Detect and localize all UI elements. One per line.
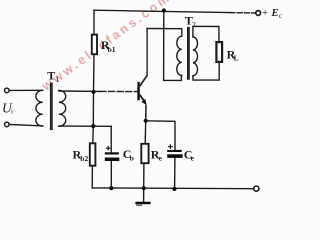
transformer T1 core (51, 83, 52, 129)
wire Rb2 bottom (91, 166, 93, 188)
resistor Rb2 (90, 143, 96, 165)
label +Ec (262, 8, 282, 20)
svg-text:L: L (234, 53, 239, 62)
transformer T1 secondary winding (59, 90, 66, 126)
wire emitter to Re (144, 121, 147, 144)
wire Ce bottom (174, 158, 176, 189)
svg-text:T: T (47, 68, 55, 82)
node junction dot base (91, 90, 95, 94)
input terminal bottom (5, 122, 10, 127)
node junction dot Ce ground (172, 187, 176, 191)
svg-text:E: E (271, 8, 279, 19)
wire input top (9, 89, 43, 91)
svg-text:c: c (279, 12, 282, 20)
wire Rb1 bottom to base node (93, 54, 96, 92)
node junction dot Cb ground (109, 186, 113, 190)
transistor Q1 emitter lead with arrow (140, 95, 147, 121)
wire collector to T2 primary top (147, 29, 182, 37)
svg-text:1: 1 (55, 75, 59, 84)
label Re (151, 147, 163, 162)
svg-text:+: + (262, 8, 268, 19)
transformer T2 core (188, 28, 189, 80)
resistor Rb1 (92, 35, 97, 55)
capacitor Cb polarity plus (106, 146, 111, 151)
ground terminal bottom right (254, 186, 259, 191)
wire emitter to Ce (146, 121, 175, 150)
transformer T1 primary winding (36, 90, 43, 126)
wire T1 secondary top to base (59, 90, 138, 93)
label T2 (185, 14, 196, 29)
watermark www.elecfans.com (39, 0, 174, 94)
transistor Q1 base bar (137, 82, 139, 100)
svg-text:i: i (11, 108, 13, 116)
label Ui (2, 101, 13, 116)
label RL (227, 47, 239, 62)
wire collector vertical (146, 29, 148, 76)
ground stem (143, 188, 145, 202)
wire Re bottom (143, 163, 145, 188)
label T1 (47, 68, 59, 83)
wire base node to node B (92, 92, 94, 126)
resistor Re (141, 144, 148, 163)
ground (135, 202, 150, 206)
label Rb2 (73, 147, 89, 163)
wire bottom ground rail (92, 187, 253, 190)
capacitor Cb plates (105, 152, 120, 161)
svg-text:b2: b2 (80, 154, 88, 163)
svg-text:b: b (130, 154, 134, 163)
node junction dot emitter (144, 119, 148, 123)
wire T1 secondary bottom to node B and Cb (59, 126, 111, 152)
label Rb1 (101, 38, 116, 54)
label Cb (123, 147, 134, 163)
label Ce (184, 147, 195, 162)
transformer T2 secondary winding (193, 37, 198, 76)
node junction dot ground stem (142, 186, 146, 190)
svg-text:b1: b1 (108, 45, 116, 54)
wire Cb bottom (110, 161, 112, 188)
wire top supply rail (94, 10, 255, 13)
svg-text:2: 2 (192, 20, 196, 29)
wire Rb1 top (93, 10, 95, 34)
wire supply to T2 primary bottom (164, 10, 182, 80)
node junction dot top rail (162, 8, 166, 12)
wire input bottom (9, 125, 43, 126)
capacitor Ce plates (167, 150, 182, 158)
supply terminal +Ec (256, 11, 261, 16)
capacitor Ce polarity plus (168, 144, 173, 149)
node junction dot B (secondary bottom) (91, 124, 95, 128)
wire node B to Rb2 (92, 126, 95, 143)
input terminal top (5, 88, 10, 93)
resistor RL (216, 42, 222, 62)
transformer T2 primary winding (177, 36, 182, 75)
wire RL bottom to T2 secondary bottom (193, 62, 219, 80)
wire T2 secondary top to RL (193, 26, 219, 42)
transistor Q1 collector lead (140, 76, 147, 87)
